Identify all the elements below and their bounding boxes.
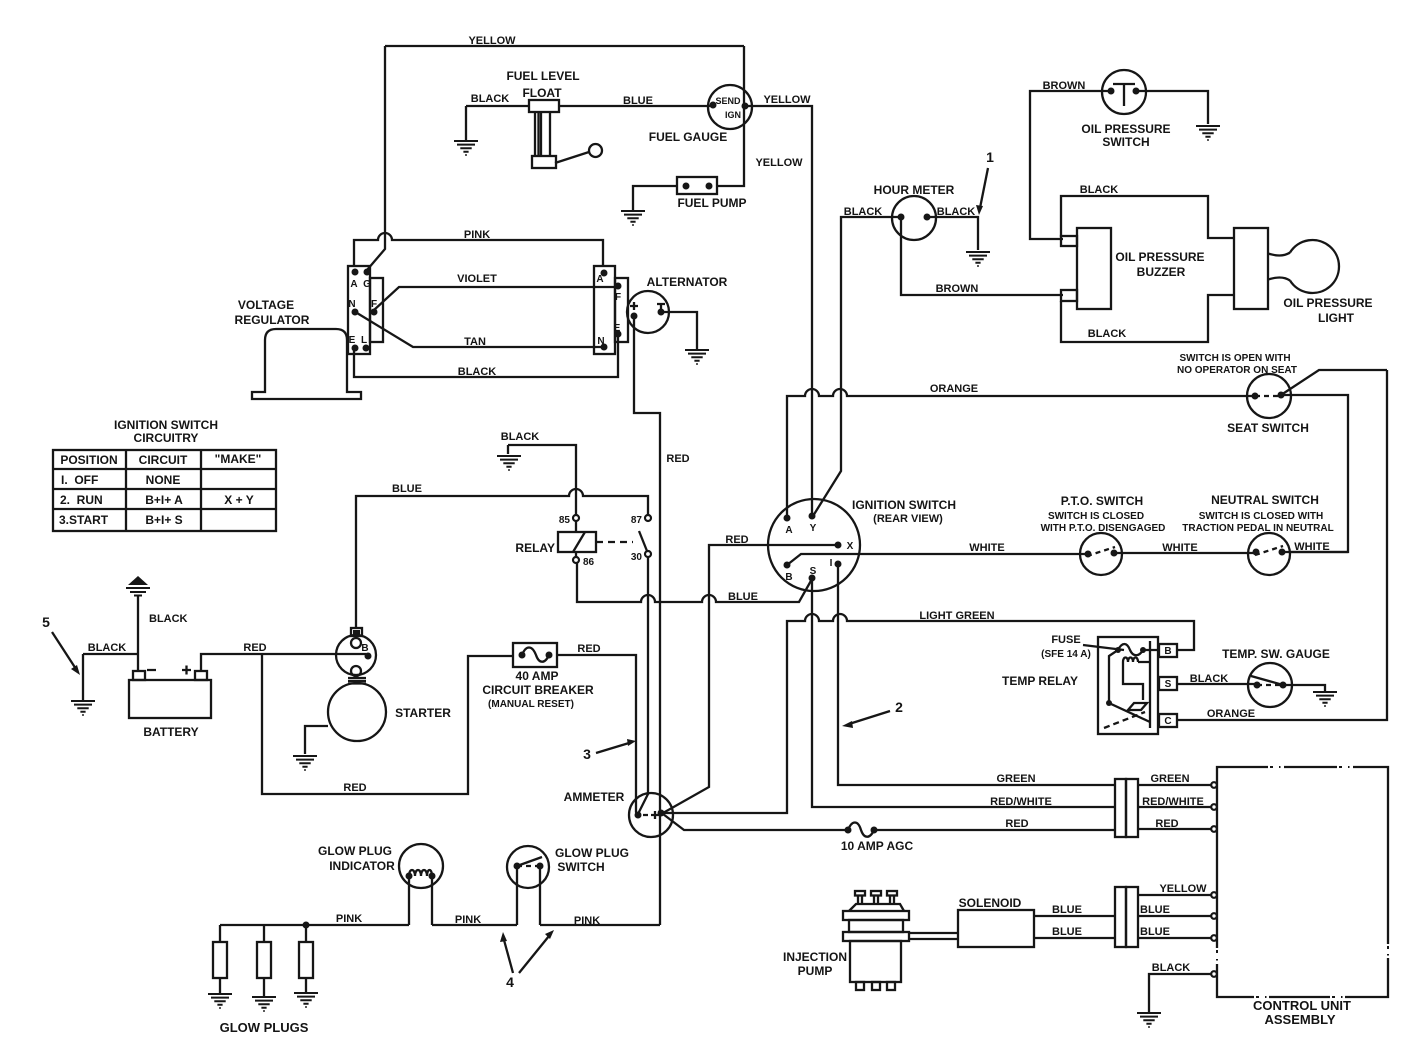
svg-text:10 AMP AGC: 10 AMP AGC: [841, 839, 914, 853]
wire black battery minus up to frame: [137, 596, 139, 671]
svg-text:INDICATOR: INDICATOR: [329, 859, 395, 873]
svg-text:BLUE: BLUE: [392, 483, 422, 495]
svg-text:POSITION: POSITION: [60, 453, 117, 467]
svg-text:1: 1: [986, 149, 994, 165]
svg-text:2: 2: [895, 699, 903, 715]
voltage regulator connector right: [594, 266, 628, 354]
seat switch: [1247, 374, 1291, 418]
wire oil pressure switch to ground: [1136, 91, 1208, 124]
svg-text:A: A: [350, 279, 357, 290]
wire red connector to control unit: [1138, 828, 1211, 830]
svg-text:BLUE: BLUE: [1140, 904, 1170, 916]
svg-text:A: A: [785, 525, 792, 536]
svg-text:OIL PRESSURE: OIL PRESSURE: [1115, 250, 1204, 264]
ground control unit: [1137, 1013, 1161, 1027]
neutral switch: [1248, 533, 1290, 575]
temp relay internals: [1149, 641, 1151, 728]
svg-text:L: L: [361, 335, 367, 346]
svg-text:87: 87: [631, 515, 643, 526]
oil pressure buzzer loop black bottom: [1061, 295, 1234, 342]
fuel pump: [677, 177, 717, 194]
svg-text:IGNITION SWITCH: IGNITION SWITCH: [852, 498, 956, 512]
circuit breaker: [513, 643, 557, 667]
svg-text:CIRCUITRY: CIRCUITRY: [134, 431, 199, 445]
wire red/white ignition S down: [812, 578, 1115, 807]
glow plug 2: [263, 925, 265, 996]
svg-text:F: F: [615, 292, 621, 303]
svg-text:ORANGE: ORANGE: [930, 383, 978, 395]
wire pink regulator: [354, 233, 603, 267]
wire blue starter S to relay 87: [356, 489, 648, 628]
wire white neutral to seat corner: [1282, 551, 1348, 553]
svg-text:RED/WHITE: RED/WHITE: [990, 796, 1052, 808]
svg-text:FUEL LEVEL: FUEL LEVEL: [506, 69, 579, 83]
svg-text:GLOW PLUGS: GLOW PLUGS: [220, 1020, 309, 1035]
svg-text:NEUTRAL SWITCH: NEUTRAL SWITCH: [1211, 493, 1319, 507]
svg-text:BLACK: BLACK: [844, 206, 883, 218]
wire blue relay 86 to ignition S: [577, 563, 812, 602]
wire red breaker to ammeter: [557, 655, 638, 815]
oil pressure light socket: [1234, 228, 1268, 309]
wire black battery to ground: [83, 654, 138, 700]
frame ground above battery: [126, 576, 150, 596]
svg-text:BLACK: BLACK: [458, 366, 497, 378]
svg-text:BLACK: BLACK: [501, 431, 540, 443]
svg-text:C: C: [1164, 716, 1171, 727]
svg-text:BLACK: BLACK: [149, 613, 188, 625]
PTO switch: [1080, 533, 1122, 575]
svg-text:BATTERY: BATTERY: [143, 725, 198, 739]
svg-text:Y: Y: [810, 523, 817, 534]
svg-text:SWITCH IS CLOSED WITH: SWITCH IS CLOSED WITH: [1199, 511, 1323, 522]
svg-text:HOUR METER: HOUR METER: [874, 183, 955, 197]
svg-text:PINK: PINK: [455, 914, 481, 926]
wire red alternator down to ammeter: [634, 316, 660, 925]
svg-text:CIRCUIT: CIRCUIT: [139, 453, 188, 467]
hour meter: [892, 196, 936, 240]
svg-text:RED: RED: [666, 453, 689, 465]
ground relay: [497, 456, 521, 470]
svg-text:YELLOW: YELLOW: [468, 35, 516, 47]
svg-text:BLACK: BLACK: [88, 642, 127, 654]
svg-text:FUEL PUMP: FUEL PUMP: [677, 196, 746, 210]
svg-text:BLACK: BLACK: [1088, 328, 1127, 340]
svg-text:86: 86: [583, 557, 595, 568]
wire temp gauge to ground: [1283, 685, 1325, 691]
svg-text:YELLOW: YELLOW: [763, 94, 811, 106]
svg-text:BLACK: BLACK: [1080, 184, 1119, 196]
battery: [129, 671, 211, 718]
relay: [573, 515, 579, 521]
wire indicator legs: [409, 876, 432, 925]
svg-text:RED: RED: [343, 782, 366, 794]
svg-text:GLOW PLUG: GLOW PLUG: [318, 844, 392, 858]
wire black relay 85 to ground: [508, 445, 576, 515]
svg-text:WITH P.T.O. DISENGAGED: WITH P.T.O. DISENGAGED: [1041, 523, 1166, 534]
injection pump: [843, 891, 958, 990]
svg-text:(REAR VIEW): (REAR VIEW): [873, 513, 943, 525]
svg-text:IGNITION SWITCH: IGNITION SWITCH: [114, 418, 218, 432]
oil pressure buzzer: [1061, 228, 1111, 309]
svg-text:3.START: 3.START: [59, 513, 109, 527]
svg-text:BLACK: BLACK: [471, 93, 510, 105]
wire tan: [357, 313, 603, 347]
glow plug 3: [305, 925, 307, 992]
wire switch legs: [517, 866, 540, 925]
svg-text:B+I+ S: B+I+ S: [145, 513, 182, 527]
svg-text:BLUE: BLUE: [728, 591, 758, 603]
svg-text:NO OPERATOR ON SEAT: NO OPERATOR ON SEAT: [1177, 365, 1297, 376]
svg-text:3: 3: [583, 746, 591, 762]
svg-text:5: 5: [42, 614, 50, 630]
starter solenoid: [336, 628, 376, 684]
ground starter: [293, 756, 317, 770]
svg-text:FUEL GAUGE: FUEL GAUGE: [649, 130, 727, 144]
wire red ammeter to 10 amp fuse: [663, 814, 846, 830]
svg-text:B: B: [1164, 646, 1171, 657]
svg-text:BLUE: BLUE: [1052, 926, 1082, 938]
svg-text:SWITCH: SWITCH: [1102, 135, 1149, 149]
svg-text:ALTERNATOR: ALTERNATOR: [647, 275, 728, 289]
svg-text:WHITE: WHITE: [1162, 542, 1197, 554]
wire red fuse to connector: [874, 829, 1115, 831]
svg-text:SWITCH IS CLOSED: SWITCH IS CLOSED: [1048, 511, 1144, 522]
svg-text:AMMETER: AMMETER: [564, 790, 625, 804]
svg-text:RED: RED: [243, 642, 266, 654]
ignition switch: [768, 499, 860, 591]
svg-text:YELLOW: YELLOW: [755, 157, 803, 169]
svg-text:E: E: [614, 323, 621, 334]
svg-text:SWITCH IS OPEN WITH: SWITCH IS OPEN WITH: [1179, 353, 1290, 364]
svg-text:LIGHT GREEN: LIGHT GREEN: [919, 610, 994, 622]
wire black hour meter to ignition Y: [813, 217, 901, 516]
wire white ignition B to PTO switch: [787, 554, 1088, 565]
svg-text:G: G: [363, 279, 371, 290]
wire seat switch to white: [1281, 395, 1348, 552]
wire violet: [374, 287, 617, 310]
wire seat switch down to temp relay C: [1177, 370, 1387, 720]
svg-text:NONE: NONE: [146, 473, 181, 487]
ground temp gauge: [1313, 692, 1337, 706]
svg-text:TRACTION PEDAL IN NEUTRAL: TRACTION PEDAL IN NEUTRAL: [1182, 523, 1333, 534]
wire red/white connector to control unit: [1138, 806, 1211, 808]
wire black hour meter right to ground: [927, 217, 978, 250]
fuel level float: [529, 100, 602, 168]
svg-text:RED/WHITE: RED/WHITE: [1142, 796, 1204, 808]
wire red battery branch to breaker: [262, 654, 513, 794]
wire starter to ground: [305, 726, 328, 754]
wire brown hour meter to buzzer: [901, 217, 1063, 295]
svg-text:SEND: SEND: [715, 96, 741, 106]
svg-text:WHITE: WHITE: [969, 542, 1004, 554]
temp relay: [1098, 637, 1177, 734]
svg-text:X + Y: X + Y: [224, 493, 253, 507]
svg-text:VIOLET: VIOLET: [457, 273, 497, 285]
svg-text:PINK: PINK: [336, 913, 362, 925]
alternator: [627, 291, 669, 333]
voltage regulator can: [252, 329, 361, 399]
svg-text:ASSEMBLY: ASSEMBLY: [1264, 1012, 1335, 1027]
wire black control unit to ground: [1149, 974, 1211, 1012]
svg-text:SWITCH: SWITCH: [557, 860, 604, 874]
ground hour meter: [966, 252, 990, 266]
fuse 10 amp AGC: [845, 827, 852, 834]
wire white PTO to neutral: [1114, 552, 1256, 554]
svg-text:2. RUN: 2. RUN: [60, 493, 103, 507]
wire pink indicator to switch: [432, 924, 517, 926]
svg-text:IGN: IGN: [725, 110, 741, 120]
svg-text:F: F: [371, 299, 377, 310]
wire yellow top loop: [367, 46, 744, 270]
svg-text:85: 85: [559, 515, 571, 526]
wire pink switch to ammeter: [540, 924, 660, 926]
svg-text:N: N: [348, 299, 355, 310]
svg-text:OIL PRESSURE: OIL PRESSURE: [1081, 122, 1170, 136]
wire yellow connector to control unit: [1138, 894, 1211, 896]
temp relay fuse: [1115, 647, 1121, 653]
svg-text:RELAY: RELAY: [515, 541, 555, 555]
control unit assembly: [1217, 767, 1388, 997]
glow plug switch: [507, 846, 549, 888]
ground oil pressure switch: [1196, 126, 1220, 140]
svg-text:FLOAT: FLOAT: [522, 86, 562, 100]
svg-text:TAN: TAN: [464, 336, 486, 348]
svg-text:RED: RED: [577, 643, 600, 655]
svg-text:BLUE: BLUE: [623, 95, 653, 107]
svg-text:FUSE: FUSE: [1051, 634, 1080, 646]
fuel gauge: [708, 85, 752, 129]
svg-text:BLUE: BLUE: [1140, 926, 1170, 938]
ground fuel float: [454, 141, 478, 155]
svg-text:S: S: [1165, 679, 1172, 690]
svg-text:"MAKE": "MAKE": [215, 452, 262, 466]
svg-text:STARTER: STARTER: [395, 706, 451, 720]
connector block upper: [1115, 779, 1138, 837]
glow plug 1: [219, 925, 221, 993]
wire red ignition X to ammeter: [663, 545, 838, 813]
svg-text:PINK: PINK: [574, 915, 600, 927]
svg-text:BLUE: BLUE: [1052, 904, 1082, 916]
oil pressure buzzer loop black top: [1061, 196, 1234, 238]
wire orange ignition A to seat switch: [787, 389, 1255, 518]
wire black to fuel level float: [466, 106, 529, 140]
ground battery minus: [71, 701, 95, 715]
wire pink glow plugs to indicator: [220, 924, 409, 926]
svg-text:BROWN: BROWN: [936, 283, 979, 295]
svg-text:CONTROL UNIT: CONTROL UNIT: [1253, 998, 1351, 1013]
wire alternator to ground: [661, 312, 697, 349]
svg-text:ORANGE: ORANGE: [1207, 708, 1255, 720]
starter motor: [328, 683, 386, 741]
wire black regulator bottom: [354, 336, 618, 377]
svg-text:SEAT SWITCH: SEAT SWITCH: [1227, 421, 1309, 435]
svg-text:B+I+ A: B+I+ A: [145, 493, 183, 507]
wire blue solenoid top: [1034, 915, 1211, 917]
svg-text:GREEN: GREEN: [996, 773, 1035, 785]
control unit terminals: [1211, 782, 1217, 788]
svg-text:4: 4: [506, 974, 514, 990]
wire green ignition I down: [838, 564, 1115, 785]
junction dot glow plugs: [303, 922, 310, 929]
svg-text:30: 30: [631, 552, 643, 563]
svg-text:LIGHT: LIGHT: [1318, 311, 1355, 325]
svg-text:B: B: [361, 643, 368, 654]
svg-text:GLOW PLUG: GLOW PLUG: [555, 846, 629, 860]
wire yellow gauge to ignition Y: [745, 106, 812, 513]
ground fuel pump: [621, 211, 645, 225]
svg-text:B: B: [785, 572, 792, 583]
svg-text:TEMP RELAY: TEMP RELAY: [1002, 674, 1078, 688]
svg-text:OIL PRESSURE: OIL PRESSURE: [1283, 296, 1372, 310]
svg-text:I: I: [830, 558, 833, 569]
svg-text:A: A: [596, 274, 603, 285]
connector block lower: [1115, 887, 1138, 947]
svg-text:40 AMP: 40 AMP: [516, 669, 559, 683]
svg-text:YELLOW: YELLOW: [1159, 883, 1207, 895]
svg-text:N: N: [597, 336, 604, 347]
wire blue solenoid bottom: [1034, 937, 1211, 939]
wire blue float to gauge: [559, 105, 710, 107]
svg-text:GREEN: GREEN: [1150, 773, 1189, 785]
svg-text:WHITE: WHITE: [1294, 541, 1329, 553]
ammeter: [629, 793, 673, 837]
ground alternator: [685, 350, 709, 364]
svg-text:BUZZER: BUZZER: [1137, 265, 1186, 279]
svg-text:RED: RED: [1005, 818, 1028, 830]
svg-text:BLACK: BLACK: [1152, 962, 1191, 974]
voltage regulator connector left: [348, 266, 383, 354]
solenoid: [958, 910, 1034, 947]
svg-text:VOLTAGE: VOLTAGE: [238, 298, 294, 312]
wire light green ammeter to temp relay B: [663, 614, 1194, 813]
svg-text:E: E: [349, 335, 356, 346]
svg-text:X: X: [847, 541, 854, 552]
svg-text:BLACK: BLACK: [1190, 673, 1229, 685]
svg-text:PUMP: PUMP: [798, 964, 833, 978]
svg-text:RED: RED: [725, 534, 748, 546]
svg-text:(MANUAL RESET): (MANUAL RESET): [488, 699, 574, 710]
svg-text:PINK: PINK: [464, 229, 490, 241]
svg-text:CIRCUIT BREAKER: CIRCUIT BREAKER: [482, 683, 594, 697]
svg-text:I. OFF: I. OFF: [61, 473, 98, 487]
svg-text:SOLENOID: SOLENOID: [959, 896, 1022, 910]
temp sw gauge: [1248, 663, 1292, 707]
svg-text:TEMP. SW. GAUGE: TEMP. SW. GAUGE: [1222, 647, 1330, 661]
wire green connector to control unit: [1138, 784, 1211, 786]
wire oil pressure switch to buzzer: [1030, 91, 1111, 239]
glow plug indicator: [399, 844, 443, 888]
svg-text:S: S: [810, 566, 817, 577]
svg-text:RED: RED: [1155, 818, 1178, 830]
oil pressure light bulb: [1268, 240, 1339, 293]
oil pressure switch: [1102, 70, 1146, 114]
svg-text:P.T.O. SWITCH: P.T.O. SWITCH: [1061, 494, 1143, 508]
svg-text:REGULATOR: REGULATOR: [235, 313, 310, 327]
wire black temp relay S to gauge: [1177, 683, 1257, 685]
svg-text:(SFE 14 A): (SFE 14 A): [1041, 649, 1091, 660]
wire relay 30 to ammeter: [638, 557, 648, 814]
svg-text:INJECTION: INJECTION: [783, 950, 847, 964]
svg-text:BLACK: BLACK: [937, 206, 976, 218]
wire fuel pump to ground: [633, 186, 677, 210]
wire red battery to starter B: [201, 654, 366, 671]
